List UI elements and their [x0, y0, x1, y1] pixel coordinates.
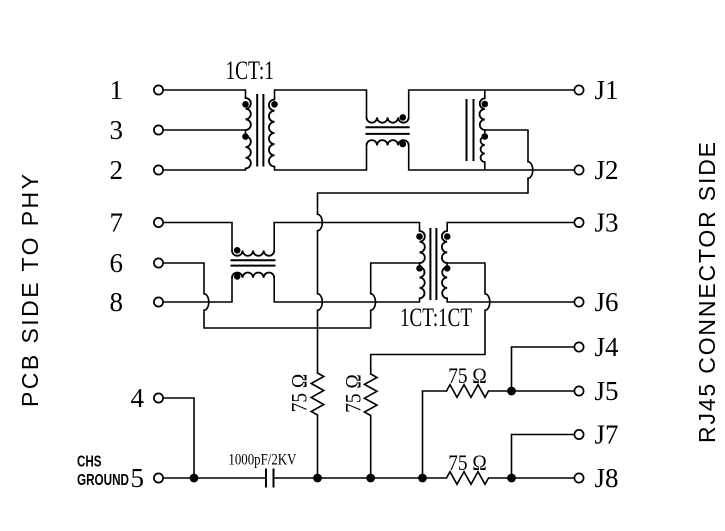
- resistor R2 75Ω: [370, 355, 372, 375]
- choke L1 bottom winding dot: [400, 141, 407, 148]
- transformer T1 primary winding upper section: [246, 98, 251, 130]
- terminal J2: [574, 155, 618, 185]
- autotransformer T3 winding lower section: [484, 130, 486, 137]
- wire pin6 bus: [204, 327, 371, 329]
- CHS GROUND label: [77, 454, 129, 490]
- wire R1 to ground bus: [317, 415, 319, 478]
- terminal J7: [574, 419, 618, 449]
- choke L2 core: [231, 259, 276, 261]
- pin 5 terminal: [131, 463, 164, 493]
- transformer T2 primary winding upper section: [420, 231, 425, 263]
- wire pin6 bus up to T2 primary tap with hop: [371, 263, 376, 328]
- pin 4 terminal: [131, 383, 164, 413]
- wire T2 secondary center tap: [447, 262, 485, 264]
- choke L1 bottom winding: [367, 140, 409, 145]
- svg-text:75 Ω: 75 Ω: [448, 363, 487, 388]
- junction dot pin4: [190, 474, 199, 483]
- svg-text:1000pF/2KV: 1000pF/2KV: [228, 452, 296, 469]
- svg-text:75 Ω: 75 Ω: [287, 374, 312, 413]
- transformer T2 primary dot upper: [416, 233, 423, 240]
- choke L1 top winding dot: [400, 114, 407, 121]
- choke L1 core: [366, 126, 410, 128]
- autotransformer T3 dot upper: [482, 101, 489, 108]
- svg-text:8: 8: [110, 287, 124, 317]
- autotransformer T3 bottom lead to J2 line: [484, 162, 486, 170]
- choke L2 top winding dot: [234, 247, 241, 254]
- transformer T2 secondary winding lower section: [446, 263, 448, 267]
- wire R1 feed vertical with hops: [318, 193, 323, 373]
- wire T2 tap vertical with hop over J6 line: [485, 263, 490, 355]
- pin 8 terminal: [110, 287, 164, 317]
- svg-text:J6: J6: [595, 287, 619, 317]
- transformer T2 primary bottom lead: [419, 298, 421, 302]
- svg-text:J7: J7: [595, 419, 619, 449]
- junction dot R3 ground: [418, 474, 427, 483]
- wire T1 secondary top to choke L1: [275, 90, 367, 117]
- svg-text:2: 2: [110, 155, 124, 185]
- svg-text:J8: J8: [595, 463, 619, 493]
- choke L2 bottom winding: [232, 273, 274, 278]
- svg-text:7: 7: [110, 208, 124, 238]
- resistor R4 75Ω in ground bus: [447, 472, 489, 485]
- wire T2 tap to resistor R2: [371, 354, 485, 356]
- svg-text:4: 4: [131, 383, 145, 413]
- resistor R1 75Ω: [311, 373, 324, 415]
- wire ground bus up to resistor R3: [423, 391, 447, 478]
- transformer T2 secondary dot lower: [444, 265, 451, 272]
- wire choke L1 top to autotransformer T3 and J1: [409, 90, 575, 117]
- wire choke L2 top to T2 primary: [274, 223, 419, 251]
- svg-text:1CT:1: 1CT:1: [225, 56, 274, 85]
- transformer T1 core: [256, 94, 258, 167]
- svg-text:J2: J2: [595, 155, 619, 185]
- capacitor C1 1000pF/2KV: [265, 469, 267, 488]
- wire J4 branch: [512, 347, 575, 391]
- pin 7 terminal: [110, 208, 164, 238]
- wire J7 branch: [512, 435, 575, 479]
- terminal J4: [574, 332, 619, 362]
- transformer T2 primary dot lower: [416, 265, 423, 272]
- wire pin2 to T1 primary bottom: [164, 168, 246, 170]
- autotransformer T3 dot lower: [482, 133, 489, 140]
- wire T2 secondary bottom to J6: [447, 298, 574, 302]
- wire T3 center tap: [485, 129, 528, 131]
- svg-text:6: 6: [110, 248, 124, 278]
- wire choke L2 bottom to T2 primary bottom: [274, 278, 419, 302]
- choke L1 top winding: [367, 117, 409, 122]
- wire pin7 to choke L2: [164, 223, 232, 251]
- transformer T2 primary top lead: [419, 223, 421, 232]
- wire pin6 vertical with hop over pin8 line: [204, 263, 209, 328]
- wire choke L1 bottom to J2 line: [409, 145, 575, 170]
- svg-text:75 Ω: 75 Ω: [448, 450, 487, 475]
- terminal J1: [574, 75, 618, 105]
- junction dot R2 ground: [366, 474, 375, 483]
- junction dot J4/J5: [507, 387, 516, 396]
- wire pin3 to T1 center tap: [164, 129, 246, 131]
- autotransformer T3 winding upper section: [480, 98, 485, 130]
- pin 6 terminal: [110, 248, 164, 278]
- svg-text:3: 3: [110, 115, 124, 145]
- wire R4 to J8: [489, 477, 575, 479]
- wire to T2 primary center tap: [371, 262, 420, 264]
- svg-text:5: 5: [131, 463, 145, 493]
- choke L2 top winding: [232, 251, 274, 256]
- wire T3 tap vertical with hop over J2 line: [528, 130, 533, 193]
- wire R3 to J5: [489, 390, 575, 392]
- wire pin6 down and across: [164, 262, 204, 264]
- svg-text:1: 1: [110, 75, 124, 105]
- resistor R3 75Ω: [447, 385, 489, 398]
- transformer T1 secondary dot: [271, 101, 278, 108]
- autotransformer T3 lead from J1 line: [484, 90, 486, 98]
- svg-text:J3: J3: [595, 207, 619, 237]
- pin 1 terminal: [110, 75, 164, 105]
- autotransformer T3 core: [466, 99, 468, 161]
- pin 2 terminal: [110, 155, 164, 185]
- svg-text:J4: J4: [595, 332, 620, 362]
- svg-text:75 Ω: 75 Ω: [341, 374, 366, 413]
- svg-text:1CT:1CT: 1CT:1CT: [400, 303, 472, 332]
- transformer T2 core: [429, 228, 431, 300]
- wire T1 secondary bottom to choke L1: [275, 145, 367, 170]
- transformer T1 primary winding lower section: [245, 130, 247, 136]
- terminal J5: [574, 376, 618, 406]
- junction dot R1 ground: [313, 474, 322, 483]
- svg-text:J5: J5: [595, 376, 619, 406]
- transformer T1 primary dot upper: [242, 101, 249, 108]
- choke L2 bottom winding dot: [234, 273, 241, 280]
- transformer T2 secondary dot upper: [444, 233, 451, 240]
- transformer T1 primary dot lower: [242, 133, 249, 140]
- transformer T2 secondary winding upper section: [442, 231, 447, 263]
- transformer T1 secondary winding: [269, 100, 275, 167]
- transformer T2 primary winding lower section: [419, 263, 421, 267]
- wire R2 to ground bus: [370, 416, 372, 479]
- wire pin5 to capacitor C1: [164, 477, 266, 479]
- wire pin4 to ground bus: [164, 398, 194, 478]
- wire tap bus to resistor R1: [318, 192, 529, 194]
- svg-text:CHS: CHS: [77, 454, 102, 471]
- ground bus to resistor R4: [274, 477, 447, 479]
- wire T2 secondary top to J3: [447, 223, 574, 232]
- terminal J6: [574, 287, 618, 317]
- svg-text:J1: J1: [595, 75, 619, 105]
- terminal J3: [574, 207, 618, 237]
- pin 3 terminal: [110, 115, 164, 145]
- svg-text:GROUND: GROUND: [77, 472, 129, 489]
- terminal J8: [574, 463, 618, 493]
- wire pin1 to T1 primary: [164, 90, 246, 98]
- junction dot J7/J8: [507, 474, 516, 483]
- wire pin8 to choke L2 bottom: [164, 278, 232, 302]
